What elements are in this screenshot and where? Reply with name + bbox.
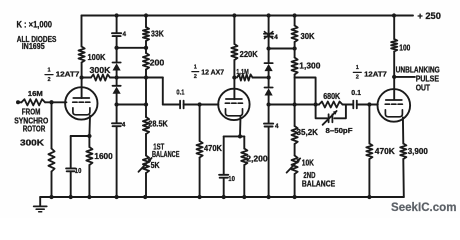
wire D2 down bbox=[116, 94, 118, 123]
svg-text:5K: 5K bbox=[151, 161, 160, 170]
wire 680K to cap bbox=[343, 104, 353, 106]
capacitor 0.1 (coupling 2) bbox=[352, 101, 354, 109]
wire 200 down bbox=[145, 70, 147, 118]
resistor 470K (grid3) bbox=[368, 105, 370, 144]
triode V3 bbox=[378, 89, 411, 122]
node 470K-ground bbox=[197, 195, 201, 199]
svg-text:30K: 30K bbox=[301, 31, 316, 41]
wire 1300 loop right bbox=[295, 78, 316, 105]
svg-text:OUT: OUT bbox=[416, 82, 431, 92]
node cap10b-ground bbox=[222, 195, 226, 199]
node 100-rail bbox=[392, 13, 396, 17]
svg-text:12AT7: 12AT7 bbox=[364, 70, 387, 79]
input terminal bbox=[16, 100, 20, 104]
resistor 35.2K bbox=[292, 126, 298, 144]
capacitor 10 (cathode2 bypass) bbox=[223, 136, 225, 174]
svg-text:100: 100 bbox=[399, 43, 410, 53]
node 30K-rail bbox=[292, 13, 296, 17]
diode D2 bbox=[113, 85, 121, 87]
svg-text:1: 1 bbox=[356, 65, 359, 71]
capacitor 4 (chain2 bottom) bbox=[264, 123, 273, 125]
wire unblanking output bbox=[394, 76, 415, 78]
capacitor 4 (chain1 top) bbox=[116, 16, 118, 33]
svg-text:1600: 1600 bbox=[94, 151, 113, 161]
ground bbox=[39, 197, 41, 206]
resistor 100K bbox=[81, 16, 83, 47]
svg-text:BALANCE: BALANCE bbox=[152, 150, 180, 159]
svg-text:0.1: 0.1 bbox=[351, 90, 361, 97]
diode D1 bbox=[113, 62, 121, 64]
node column2-ground bbox=[292, 195, 296, 199]
node 30K/1300 bbox=[292, 46, 296, 50]
triode V2 bbox=[218, 89, 249, 120]
svg-text:3,900: 3,900 bbox=[408, 146, 428, 156]
node column-plate1row bbox=[144, 75, 148, 79]
svg-text:FROM: FROM bbox=[22, 107, 41, 116]
wire cap to grid2 bbox=[184, 104, 219, 106]
resistor 1.1M bbox=[237, 74, 253, 80]
resistor 220K bbox=[233, 16, 235, 45]
resistor 300K (plate) bbox=[82, 77, 91, 79]
node grid3 bbox=[367, 102, 371, 106]
wire pot2 to ground bbox=[294, 174, 296, 197]
svg-text:12AT7: 12AT7 bbox=[56, 69, 80, 78]
svg-text:IN1695: IN1695 bbox=[22, 42, 45, 51]
wire cap to grid3 bbox=[357, 104, 378, 106]
svg-text:+ 250: + 250 bbox=[417, 11, 441, 21]
node column1-ground bbox=[143, 195, 147, 199]
svg-text:2: 2 bbox=[47, 77, 50, 83]
capacitor 0.1 (coupling 1) bbox=[179, 101, 181, 109]
wire pot to ground bbox=[145, 173, 147, 197]
resistor 1600 bbox=[88, 136, 90, 147]
node column-gridrow bbox=[144, 102, 148, 106]
node cathode2 bbox=[238, 134, 242, 138]
node A chain1 bbox=[114, 46, 118, 50]
capacitor 4 (chain2 top) bbox=[268, 16, 270, 34]
node 33K-rail bbox=[144, 13, 148, 17]
node C chain1 bbox=[114, 102, 118, 106]
svg-text:33K: 33K bbox=[151, 28, 164, 38]
ground rail bbox=[40, 196, 404, 198]
node gridrow-315 bbox=[313, 102, 317, 106]
node chain2-ground bbox=[266, 195, 270, 199]
potentiometer 10K 2nd balance bbox=[292, 156, 298, 175]
node plate1 bbox=[79, 75, 83, 79]
svg-text:4: 4 bbox=[275, 123, 279, 130]
node C chain2 bbox=[266, 102, 270, 106]
node plate3 / output bbox=[392, 75, 396, 79]
svg-text:10: 10 bbox=[228, 174, 235, 183]
svg-text:10: 10 bbox=[75, 166, 82, 175]
trimmer capacitor 8-50pF bbox=[316, 105, 328, 119]
node chain2-rail bbox=[266, 13, 270, 17]
svg-text:4: 4 bbox=[123, 31, 127, 38]
svg-text:1: 1 bbox=[47, 67, 50, 73]
svg-text:12 AX7: 12 AX7 bbox=[201, 67, 224, 76]
svg-text:470K: 470K bbox=[375, 146, 396, 156]
node 300K-ground bbox=[49, 195, 53, 199]
wire nodeA to 33K bbox=[117, 47, 146, 49]
node 1600-ground bbox=[87, 195, 91, 199]
svg-text:8–50pF: 8–50pF bbox=[326, 126, 353, 135]
resistor 2200 bbox=[243, 136, 245, 148]
svg-text:1: 1 bbox=[194, 64, 197, 70]
svg-text:300K: 300K bbox=[20, 137, 44, 147]
svg-text:100K: 100K bbox=[88, 52, 107, 62]
wire plate1 row bbox=[110, 77, 163, 79]
node cap10a-ground bbox=[69, 195, 73, 199]
svg-text:300K: 300K bbox=[90, 65, 111, 75]
resistor 100 bbox=[393, 16, 395, 40]
node A chain2 bbox=[266, 46, 270, 50]
svg-text:16M: 16M bbox=[28, 89, 43, 98]
node 2200-ground bbox=[242, 195, 246, 199]
svg-text:2,200: 2,200 bbox=[246, 154, 268, 164]
svg-text:10K: 10K bbox=[302, 159, 314, 168]
diode D4 bbox=[265, 87, 273, 89]
node grid2 bbox=[197, 102, 201, 106]
node grid1 / 300K top bbox=[49, 100, 53, 104]
svg-text:ROTOR: ROTOR bbox=[23, 124, 46, 133]
svg-text:BALANCE: BALANCE bbox=[302, 180, 335, 189]
node chain1-rail bbox=[114, 13, 118, 17]
node cathode1 bbox=[87, 134, 91, 138]
triode V1 bbox=[65, 87, 97, 119]
resistor 3900 bbox=[400, 144, 406, 160]
capacitor 4 (chain1 bottom) bbox=[112, 122, 121, 124]
svg-text:28.5K: 28.5K bbox=[148, 119, 168, 129]
svg-text:680K: 680K bbox=[323, 91, 341, 101]
svg-text:SeekIC.com: SeekIC.com bbox=[391, 200, 457, 214]
svg-text:4: 4 bbox=[122, 121, 126, 128]
wire D3-D4 bbox=[268, 71, 270, 87]
wire cathode1 bbox=[88, 116, 91, 136]
wire nodeA2 to 30K bbox=[269, 48, 295, 50]
wire D4 down bbox=[268, 96, 270, 124]
resistor 200 bbox=[143, 53, 149, 70]
resistor 28.5K bbox=[143, 117, 149, 134]
wire 35.2K to pot bbox=[294, 144, 296, 156]
svg-text:2: 2 bbox=[356, 75, 359, 81]
svg-text:4: 4 bbox=[274, 34, 278, 41]
wire 1300 down bbox=[294, 75, 296, 127]
wire nodeC2 to 680K bbox=[269, 104, 319, 106]
resistor 1300 bbox=[292, 58, 298, 75]
svg-text:470K: 470K bbox=[204, 143, 223, 153]
node chain1-ground bbox=[114, 195, 118, 199]
wire D1-D2 bbox=[116, 71, 118, 86]
node 33K/200 bbox=[144, 46, 148, 50]
svg-text:2ND: 2ND bbox=[303, 171, 315, 180]
node plate2 bbox=[232, 75, 236, 79]
svg-text:35,2K: 35,2K bbox=[297, 127, 319, 137]
capacitor 10 (cathode1 bypass) bbox=[70, 136, 72, 168]
+250 V supply rail bbox=[82, 15, 414, 17]
node 470K3-ground bbox=[367, 195, 371, 199]
potentiometer 5K 1st balance bbox=[143, 156, 149, 174]
node 220K-rail bbox=[232, 13, 236, 17]
svg-text:200: 200 bbox=[150, 58, 165, 68]
resistor 470K (grid2) bbox=[199, 105, 201, 142]
svg-text:220K: 220K bbox=[240, 49, 259, 59]
node gridrow-294 bbox=[292, 102, 296, 106]
resistor 680K bbox=[319, 102, 343, 108]
wire cathode3 bbox=[402, 118, 404, 144]
node B chain2 bbox=[266, 75, 270, 79]
resistor 30K bbox=[294, 16, 296, 26]
svg-text:K : ×1,000: K : ×1,000 bbox=[17, 20, 53, 30]
svg-text:0.1: 0.1 bbox=[176, 89, 184, 96]
svg-text:1,1M: 1,1M bbox=[236, 67, 249, 76]
wire cathode2 bbox=[239, 116, 242, 136]
resistor 300K (grid to ground) bbox=[51, 102, 53, 148]
resistor 33K bbox=[145, 16, 147, 28]
wire input to grid bbox=[45, 101, 66, 103]
resistor 16M bbox=[18, 101, 22, 103]
diode D3 bbox=[265, 62, 273, 64]
svg-text:2: 2 bbox=[194, 74, 197, 80]
node B chain1 bbox=[114, 75, 118, 79]
wire nodeC to 28.5K bbox=[117, 104, 146, 106]
wire 28.5K to pot bbox=[145, 134, 147, 156]
svg-text:1,300: 1,300 bbox=[299, 60, 320, 70]
